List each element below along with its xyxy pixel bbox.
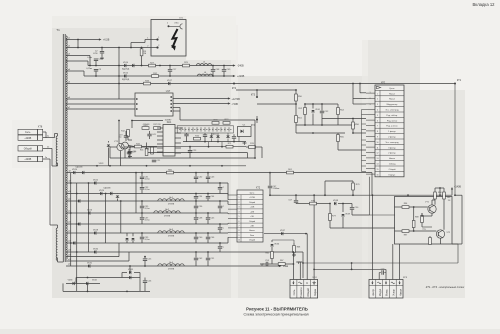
table pin stub wires: [366, 92, 375, 94]
near-transformer vertical bus 2: [76, 183, 78, 291]
diode VD37 on rail7ext: [264, 233, 307, 235]
kinescope anode box XS1: [151, 20, 186, 57]
svg-text:VD17: VD17: [167, 80, 173, 82]
svg-text:R66: R66: [265, 253, 268, 255]
diode VD41: [311, 110, 314, 112]
wires transformer to U17: [66, 98, 135, 100]
capacitor C17: [169, 66, 171, 70]
svg-text:VD22: VD22: [93, 179, 99, 181]
capacitor C41: [147, 133, 151, 135]
svg-text:2 фокус: 2 фокус: [388, 136, 396, 139]
resistor R51: [295, 116, 298, 123]
svg-text:КД226Д: КД226Д: [122, 79, 130, 81]
svg-text:14: 14: [377, 164, 379, 166]
dashed group box: [177, 126, 233, 133]
svg-text:U17: U17: [166, 90, 171, 93]
svg-text:Модул: Модул: [379, 288, 382, 296]
svg-text:VD31: VD31: [87, 262, 93, 264]
capacitor C49: [223, 66, 225, 70]
resistor R52: [304, 108, 307, 115]
wire reg mid: [352, 214, 370, 216]
riser to rail10: [129, 266, 131, 273]
transistor VT3: [117, 143, 124, 150]
filter choke Dr1: [158, 199, 184, 201]
capacitor C20: [127, 151, 131, 153]
svg-text:R86: R86: [404, 203, 407, 205]
resistor R40: [154, 127, 161, 130]
svg-text:общ: общ: [422, 229, 426, 231]
staircase bus verticals: [88, 183, 90, 252]
wire aux row y277.5: [76, 277, 134, 279]
svg-text:КТ1...КТ4 - контрольные точки: КТ1...КТ4 - контрольные точки: [426, 285, 465, 289]
resistor R54: [337, 108, 340, 115]
diode VD17: [168, 82, 170, 85]
svg-text:4,7мк: 4,7мк: [145, 239, 150, 241]
svg-text:VD35: VD35: [128, 269, 134, 271]
resistor R90 below VT2: [429, 238, 432, 245]
resistor R61 on rail1: [287, 171, 294, 174]
svg-text:4700: 4700: [93, 53, 97, 55]
wire U17 pin down to DA1 area: [173, 107, 180, 109]
svg-text:15: 15: [377, 169, 379, 171]
svg-text:1: 1: [377, 93, 378, 95]
test point KT1: [454, 83, 456, 85]
wire y269.4 long: [314, 268, 386, 270]
svg-text:1М: 1М: [143, 53, 146, 55]
capacitor C26: [129, 147, 131, 151]
wire net row E: [322, 118, 366, 120]
diode VD29 vertical between rails: [116, 196, 119, 198]
wire reg row bottom: [330, 227, 395, 229]
svg-text:Схема электрическая принципиал: Схема электрическая принципиальная: [243, 313, 308, 317]
vertical wire under table: [369, 177, 371, 215]
wire x325 riser: [324, 181, 326, 195]
U17 right pin dots: [170, 96, 172, 98]
svg-text:1: 1: [158, 37, 159, 39]
wire to XS1 pin 2: [66, 47, 151, 49]
svg-text:0,22мк: 0,22мк: [86, 68, 92, 70]
svg-text:1 Анод: 1 Анод: [389, 163, 396, 166]
svg-text:11: 11: [377, 147, 379, 149]
wires inside regulator U4: [431, 200, 433, 205]
capacitor C47: [269, 173, 271, 186]
flyback module U17 box: [135, 93, 173, 116]
svg-text:+220В: +220В: [237, 75, 245, 78]
wire VT4 emitter down: [124, 149, 126, 158]
svg-text:VD34: VD34: [92, 280, 97, 282]
wire a3 down to rail1: [89, 56, 91, 66]
diode VD33: [73, 282, 75, 285]
wire +6,5V tap a1: [66, 39, 100, 41]
svg-text:Общий: Общий: [249, 239, 255, 242]
pin 2 of XS1: [156, 46, 158, 48]
diode cluster verticals: [210, 133, 212, 136]
resistor R42: [135, 145, 142, 148]
power connector table XT2: [237, 190, 263, 242]
near-transformer vertical bus 1: [70, 173, 72, 266]
svg-text:VD39: VD39: [345, 214, 350, 216]
filter choke Dr3: [158, 231, 184, 233]
lightning bolt symbol: [172, 29, 177, 48]
svg-text:Вкладка 12: Вкладка 12: [473, 2, 496, 7]
resistor R56: [352, 122, 355, 129]
resistor R70 vertical: [352, 183, 355, 190]
svg-text:Ряд. аббер.: Ряд. аббер.: [386, 115, 398, 117]
rail1 extension corner down: [371, 173, 373, 196]
resistor R77: [329, 214, 332, 221]
svg-text:VD33: VD33: [68, 280, 73, 282]
wires down to XP4: [292, 252, 294, 280]
resistor R16: [194, 137, 201, 140]
wire net row D: [296, 124, 355, 126]
connector table XP2: [375, 85, 404, 177]
wires around DA1: [118, 121, 120, 144]
transformer T1 secondary winding right side: [66, 36, 67, 259]
label +140V: [451, 188, 453, 195]
ground T near U1: [244, 142, 246, 143]
rail +1270V: [173, 98, 229, 100]
arrow Разв on rail10: [279, 265, 282, 267]
ground below C2: [101, 57, 103, 59]
filter capacitors column 1: [141, 173, 143, 177]
rail KT2: [84, 83, 455, 85]
svg-text:+6,5В: +6,5В: [103, 39, 110, 42]
svg-text:2200мк: 2200мк: [273, 188, 280, 190]
svg-text:VD23: VD23: [99, 163, 104, 165]
capacitor C3: [95, 72, 97, 77]
svg-text:4: 4: [239, 211, 240, 213]
resistor R89 vertical: [412, 221, 415, 228]
svg-text:4: 4: [377, 110, 378, 112]
resistor R76: [310, 202, 317, 205]
svg-text:+125В: +125В: [249, 197, 255, 199]
svg-text:Ускор: Ускор: [393, 289, 396, 296]
svg-text:КД226В: КД226В: [76, 167, 84, 169]
svg-text:8: 8: [239, 230, 240, 232]
svg-text:Модулятор: Модулятор: [387, 104, 398, 106]
controller DA1 box: [163, 125, 175, 157]
connector XP3: [369, 280, 403, 299]
resistor R27: [149, 64, 156, 67]
svg-text:2: 2: [158, 45, 159, 47]
connector XP4: [290, 280, 318, 299]
tap wire y252 staircase: [66, 256, 119, 258]
transformer T1 core: [62, 34, 64, 262]
svg-text:VD28: VD28: [93, 229, 99, 231]
wire primary top tap: [57, 134, 59, 137]
resistor R75: [226, 145, 233, 148]
svg-text:Общий: Общий: [249, 201, 255, 204]
svg-text:Разв: Разв: [250, 235, 254, 237]
capacitor C54 link above XP3: [379, 272, 381, 274]
svg-text:7: 7: [239, 226, 240, 228]
resistor R87 left: [402, 230, 409, 233]
svg-text:Разв: Разв: [283, 266, 289, 268]
rectifier diode VD20: [73, 171, 75, 174]
capacitor C16: [184, 133, 188, 135]
resistor R86 left: [402, 206, 409, 209]
svg-text:Накал: Накал: [399, 288, 402, 296]
resistor R44 vertical: [151, 147, 154, 154]
capacitor C50: [351, 204, 353, 208]
svg-text:2: 2: [377, 99, 378, 101]
right side vertical x462: [461, 195, 463, 244]
transformer T1 primary winding lower left side: [56, 228, 57, 260]
svg-text:VD30: VD30: [93, 248, 99, 250]
svg-text:R88: R88: [415, 217, 418, 219]
resistor R19: [249, 146, 256, 149]
resistor R32: [152, 75, 159, 78]
svg-text:Фокус: Фокус: [386, 288, 389, 296]
svg-text:Общий: Общий: [249, 220, 255, 223]
optocoupler U1 box: [238, 127, 252, 137]
transformer T1 primary winding upper left side: [56, 136, 57, 166]
svg-text:Сеть: Сеть: [25, 131, 31, 134]
capacitor C53 horizontal: [265, 262, 267, 266]
svg-text:4,7мк: 4,7мк: [145, 219, 150, 221]
wire cluster links: [272, 239, 294, 241]
svg-text:16: 16: [377, 174, 379, 176]
filter choke Dr2: [154, 211, 180, 213]
diode VD16: [132, 64, 134, 67]
svg-text:VD38: VD38: [333, 200, 339, 202]
svg-text:13: 13: [377, 158, 379, 160]
resistor R60 on rail1: [167, 171, 174, 174]
transistor VT1: [428, 205, 436, 213]
wire tap a4 to rail2: [66, 70, 84, 72]
resistor R9: [141, 48, 143, 49]
svg-text:КТ1: КТ1: [457, 79, 462, 82]
transistor VT3 ground: [120, 151, 122, 166]
wire net row G: [353, 132, 366, 134]
connector arrow symbol: [377, 86, 381, 89]
connector block row ~220В: [18, 135, 38, 140]
svg-text:Т1: Т1: [56, 28, 60, 32]
svg-text:ХР2: ХР2: [381, 83, 386, 85]
filter capacitors column 2: [195, 173, 197, 177]
svg-text:КТ2: КТ2: [232, 87, 237, 90]
wire tap a5: [66, 83, 84, 85]
wire net row B: [257, 103, 296, 105]
wire to right network: [245, 146, 247, 148]
resistor R12 vertical: [127, 130, 130, 137]
svg-text:10: 10: [238, 240, 240, 242]
svg-text:-240В: -240В: [237, 65, 244, 68]
rectifier diode VD27: [73, 241, 75, 244]
wire to XS1 pin 1: [130, 43, 132, 48]
wire net row A: [236, 89, 296, 91]
transistor VT4: [122, 142, 129, 149]
stub wires to mid table: [228, 194, 237, 196]
svg-text:2 фокус: 2 фокус: [388, 152, 396, 155]
svg-text:3 фокус: 3 фокус: [388, 146, 396, 149]
filter choke Dr4: [158, 264, 184, 266]
svg-text:СП3-38: СП3-38: [143, 124, 150, 126]
svg-text:R67: R67: [280, 260, 283, 262]
diode VD11 vertical: [107, 145, 110, 147]
capacitor C19: [124, 135, 128, 137]
svg-text:0,1мк: 0,1мк: [87, 57, 92, 59]
rectifier diode VD23: [78, 199, 80, 202]
svg-text:R87: R87: [404, 235, 407, 237]
wire net row F: [338, 149, 366, 151]
svg-text:VD20: VD20: [72, 169, 78, 171]
diode VD35 pair: [129, 271, 131, 274]
dashed box comb ticks: [180, 127, 182, 131]
svg-text:Ряд. меток: Ряд. меток: [387, 120, 397, 122]
svg-text:Общий: Общий: [389, 168, 397, 171]
capacitor C48: [212, 66, 214, 70]
svg-text:R68: R68: [297, 247, 300, 249]
svg-text:КТ4: КТ4: [251, 124, 256, 127]
capacitor C52: [320, 110, 324, 112]
rectifier diode VD28: [94, 231, 96, 234]
wire aux bottom y291.4: [63, 290, 150, 292]
svg-text:8: 8: [377, 131, 378, 133]
svg-text:VD15: VD15: [123, 72, 129, 74]
resistor R33: [144, 82, 151, 85]
svg-text:VD26: VD26: [87, 209, 93, 211]
svg-text:1033ЕУ: 1033ЕУ: [165, 120, 172, 122]
wire net row C: [296, 132, 345, 134]
svg-text:Уск. электрод: Уск. электрод: [385, 110, 399, 112]
svg-text:5: 5: [377, 115, 378, 117]
capacitor C57: [295, 195, 297, 200]
svg-text:2: 2: [167, 23, 168, 25]
svg-text:6: 6: [377, 120, 378, 122]
vertical feeder bus to table: [361, 110, 363, 172]
test point KT4: [256, 116, 258, 123]
wire primary mid tap: [57, 163, 59, 166]
wire y263 long: [303, 262, 458, 264]
resistor R50: [295, 94, 298, 101]
tap wire y261 staircase: [66, 260, 129, 262]
resistor R22: [223, 122, 230, 125]
wires down to XP3: [371, 195, 373, 279]
resistor R39: [142, 127, 149, 130]
diode VD39 vertical: [341, 214, 344, 216]
anode pin wire inside XS1: [168, 25, 170, 27]
rectifier diode VD22: [94, 181, 96, 184]
svg-text:ХТ8: ХТ8: [38, 126, 43, 129]
stub wires to table rows: [362, 109, 367, 111]
connector block row ~220В: [18, 156, 38, 161]
svg-text:273ПВ: 273ПВ: [168, 235, 175, 237]
capacitor C2: [101, 48, 103, 51]
svg-text:Ряд. антенн: Ряд. антенн: [386, 126, 398, 128]
svg-text:а8: а8: [68, 170, 70, 172]
diode VD38: [334, 202, 336, 205]
svg-text:Накал: Накал: [249, 230, 254, 232]
svg-text:6: 6: [239, 221, 240, 223]
svg-text:4,7мк: 4,7мк: [145, 189, 150, 191]
svg-text:VD24: VD24: [99, 190, 105, 192]
wire tap to rail1: [66, 60, 88, 62]
resistor R41 vertical: [145, 149, 148, 156]
rectifier diode VD30: [94, 250, 96, 253]
svg-text:7: 7: [377, 126, 378, 128]
resistor R55: [337, 135, 340, 142]
resistor R84 vertical top: [434, 192, 437, 199]
resistor R88 vertical: [421, 216, 424, 223]
wire tap a3: [66, 55, 90, 57]
resistor R67: [278, 263, 285, 266]
svg-text:9: 9: [377, 137, 378, 139]
capacitor C27 in cluster: [203, 134, 207, 136]
wire aux 283 row: [66, 282, 100, 284]
svg-text:Экран: Экран: [313, 288, 317, 296]
svg-text:5: 5: [239, 216, 240, 218]
wire rail3 to table pin1: [359, 84, 361, 93]
U17 left pin dots: [136, 98, 138, 100]
resistor R85 vertical top: [443, 192, 446, 199]
svg-text:VD36: VD36: [274, 244, 279, 246]
svg-text:273ПВ: 273ПВ: [164, 215, 171, 217]
wire right feeder KT1: [454, 84, 456, 196]
svg-text:а18: а18: [68, 254, 71, 256]
inductor L5: [196, 64, 211, 66]
top feed wire: [280, 194, 452, 196]
capacitor C23: [189, 147, 191, 150]
resistor R68 vertical: [293, 246, 296, 253]
capacitor C55: [144, 257, 146, 259]
rectifier diode VD31: [88, 264, 90, 267]
svg-text:а19: а19: [68, 259, 71, 261]
DA1 left pin stubs: [157, 127, 163, 129]
svg-text:Общий: Общий: [306, 288, 310, 297]
svg-text:Цепь: Цепь: [390, 88, 395, 90]
connector block row Общий: [18, 146, 38, 151]
diode VD36 vertical: [270, 244, 273, 246]
rail +220V: [84, 75, 234, 77]
svg-text:R44: R44: [146, 149, 149, 151]
wire mid row 1: [148, 146, 246, 148]
svg-text:4,7мк: 4,7мк: [145, 208, 150, 210]
rail9 corner down: [302, 252, 304, 278]
capacitor C28 in cluster: [233, 134, 235, 136]
svg-text:КД226В: КД226В: [104, 188, 112, 190]
resistor R73: [212, 122, 219, 125]
diode VD15: [124, 74, 126, 77]
svg-text:ХТ2: ХТ2: [256, 188, 261, 190]
rectifier diode VD26: [88, 211, 90, 214]
svg-text:Размагн: Размагн: [299, 287, 303, 297]
svg-text:+1270В: +1270В: [232, 98, 241, 101]
filter capacitors column 3: [207, 173, 209, 177]
svg-text:Сеть: Сеть: [292, 289, 296, 295]
rail -240V: [88, 65, 234, 67]
svg-text:VD37: VD37: [280, 230, 286, 232]
svg-text:Накал: Накал: [389, 93, 396, 95]
svg-text:VD41: VD41: [315, 109, 320, 111]
diode row VD18-VD21: [210, 136, 213, 138]
wire XT row1-row2 link: [43, 131, 46, 133]
svg-text:К: К: [306, 281, 308, 285]
svg-text:КД521: КД521: [212, 133, 217, 135]
capacitor C4: [95, 61, 97, 66]
wire link a1-a2: [77, 40, 79, 48]
svg-text:10: 10: [377, 142, 379, 144]
pin 1 of XS1: [156, 38, 158, 40]
svg-text:Накал: Накал: [389, 158, 396, 160]
wire from box bottom to y263: [351, 263, 353, 269]
svg-text:~220В: ~220В: [24, 137, 31, 140]
wire long y165.8: [66, 165, 246, 167]
svg-text:1 фокус: 1 фокус: [388, 130, 396, 133]
wire mid row 2: [148, 157, 255, 159]
capacitor C56: [144, 278, 146, 281]
capacitor C21: [152, 159, 156, 161]
